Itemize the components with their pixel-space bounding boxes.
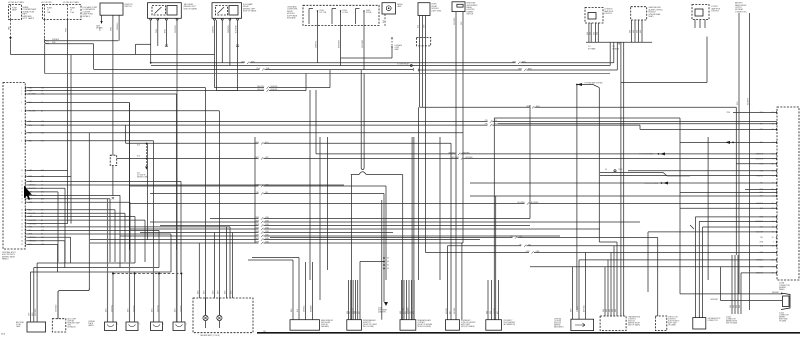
svg-text:YEL: YEL bbox=[410, 311, 412, 314]
svg-text:BLU: BLU bbox=[405, 311, 407, 314]
svg-text:24: 24 bbox=[21, 227, 23, 229]
svg-text:GRY: GRY bbox=[349, 311, 351, 314]
svg-text:LOCKING: LOCKING bbox=[554, 321, 562, 323]
svg-text:CONNECTOR): CONNECTOR) bbox=[735, 11, 747, 13]
svg-text:YEL: YEL bbox=[356, 311, 358, 314]
svg-text:12: 12 bbox=[772, 129, 774, 131]
svg-text:BRN: BRN bbox=[571, 309, 573, 312]
svg-text:S4: S4 bbox=[387, 261, 389, 263]
svg-text:22: 22 bbox=[21, 220, 23, 222]
svg-text:BLK: BLK bbox=[137, 145, 140, 147]
svg-text:BRN: BRN bbox=[736, 305, 738, 308]
svg-text:BRN: BRN bbox=[606, 309, 608, 312]
svg-text:G401: G401 bbox=[378, 308, 382, 310]
svg-text:(RIGHT OF ENGINE: (RIGHT OF ENGINE bbox=[418, 324, 433, 326]
svg-text:10: 10 bbox=[21, 170, 23, 172]
svg-text:GRY/BLK: GRY/BLK bbox=[304, 306, 306, 312]
svg-text:BRN: BRN bbox=[615, 309, 617, 312]
svg-text:GRY/YEL: GRY/YEL bbox=[180, 305, 182, 312]
svg-text:IN BOARD: IN BOARD bbox=[287, 17, 296, 20]
svg-text:BRN: BRN bbox=[589, 32, 591, 35]
svg-text:BRN: BRN bbox=[347, 311, 349, 314]
svg-text:CONTROL: CONTROL bbox=[628, 319, 636, 321]
svg-text:13: 13 bbox=[21, 185, 23, 187]
svg-text:20: 20 bbox=[21, 213, 23, 215]
svg-text:1: 1 bbox=[163, 324, 164, 326]
svg-text:BRN: BRN bbox=[637, 30, 639, 33]
svg-text:RT REAR: RT REAR bbox=[588, 47, 596, 50]
svg-text:15: 15 bbox=[21, 192, 23, 194]
svg-text:5AMP: 5AMP bbox=[12, 9, 18, 12]
svg-text:GRN/YEL: GRN/YEL bbox=[316, 41, 318, 48]
svg-text:BRN: BRN bbox=[733, 305, 735, 308]
svg-text:(BEHIND: (BEHIND bbox=[554, 324, 561, 326]
svg-text:25: 25 bbox=[21, 230, 23, 232]
svg-text:RIGHT SIDE: RIGHT SIDE bbox=[779, 318, 788, 320]
svg-text:BRN: BRN bbox=[291, 309, 293, 312]
svg-text:CONTROL: CONTROL bbox=[711, 11, 719, 13]
svg-text:BRN: BRN bbox=[730, 305, 732, 308]
svg-text:PPL: PPL bbox=[485, 120, 488, 122]
svg-text:BLU: BLU bbox=[449, 311, 451, 314]
svg-text:BRN/WHT: BRN/WHT bbox=[339, 40, 341, 48]
svg-text:BRN: BRN bbox=[597, 32, 599, 35]
svg-text:26: 26 bbox=[21, 234, 23, 236]
svg-text:BRN: BRN bbox=[213, 291, 215, 294]
svg-text:GRY/RED: GRY/RED bbox=[451, 157, 459, 159]
svg-text:GRN: GRN bbox=[354, 311, 356, 314]
svg-text:G24: G24 bbox=[137, 173, 140, 175]
svg-text:18: 18 bbox=[21, 202, 23, 204]
svg-text:ELECTRONICS: ELECTRONICS bbox=[668, 321, 679, 323]
svg-text:19: 19 bbox=[21, 209, 23, 211]
svg-text:GRN/RED: GRN/RED bbox=[228, 24, 230, 33]
svg-text:WHT/BLK: WHT/BLK bbox=[584, 305, 586, 312]
svg-text:ILLUM: ILLUM bbox=[16, 324, 21, 326]
svg-text:GRY/RED: GRY/RED bbox=[55, 304, 57, 312]
svg-text:PPL: PPL bbox=[485, 124, 488, 126]
svg-text:DOWNSHIFT: DOWNSHIFT bbox=[461, 320, 471, 322]
svg-text:(BEHIND RIGHT: (BEHIND RIGHT bbox=[726, 320, 737, 322]
svg-text:WHT: WHT bbox=[412, 311, 414, 314]
svg-text:(BEHIND: (BEHIND bbox=[779, 316, 786, 318]
svg-text:RED/YEL: RED/YEL bbox=[257, 89, 264, 91]
svg-text:HOT AT ALL TIMES: HOT AT ALL TIMES bbox=[63, 1, 80, 4]
svg-text:BLU/RED: BLU/RED bbox=[352, 308, 354, 314]
svg-text:CHECK CON: CHECK CON bbox=[668, 317, 678, 319]
svg-text:SIDE OF DASH): SIDE OF DASH) bbox=[243, 10, 257, 13]
svg-text:GRN: GRN bbox=[490, 311, 492, 314]
svg-text:BRN: BRN bbox=[197, 291, 199, 294]
svg-text:GRN/YEL: GRN/YEL bbox=[213, 26, 215, 33]
svg-text:SPOT LAMPS: SPOT LAMPS bbox=[23, 17, 35, 20]
svg-text:1: 1 bbox=[117, 324, 118, 326]
svg-text:(LEFT SIDE): (LEFT SIDE) bbox=[432, 10, 442, 12]
svg-text:YEL: YEL bbox=[256, 192, 259, 194]
svg-text:PPL/YEL: PPL/YEL bbox=[577, 306, 579, 312]
svg-text:SWITCH: SWITCH bbox=[467, 13, 474, 15]
svg-text:1: 1 bbox=[139, 324, 140, 326]
svg-text:GRY/RED: GRY/RED bbox=[454, 308, 456, 314]
svg-text:3: 3 bbox=[773, 159, 774, 161]
svg-text:S4: S4 bbox=[387, 265, 389, 267]
svg-text:BRN: BRN bbox=[400, 311, 402, 314]
svg-text:PANEL): PANEL) bbox=[2, 258, 9, 261]
svg-text:BLU/RED: BLU/RED bbox=[518, 202, 526, 204]
svg-text:BRN: BRN bbox=[594, 32, 596, 35]
svg-text:GRN/WHT: GRN/WHT bbox=[407, 307, 409, 314]
svg-text:(LEFT SIDE: (LEFT SIDE bbox=[668, 322, 677, 324]
svg-text:BRN: BRN bbox=[609, 309, 611, 312]
svg-text:LT REAR: LT REAR bbox=[612, 47, 620, 50]
svg-text:CODE ON CENTER: CODE ON CENTER bbox=[461, 322, 476, 324]
svg-text:GRY/RED: GRY/RED bbox=[35, 308, 37, 316]
svg-text:BLK: BLK bbox=[358, 311, 360, 314]
svg-text:FOG LTS SYSTEM: FOG LTS SYSTEM bbox=[639, 154, 653, 156]
svg-text:1: 1 bbox=[186, 324, 187, 326]
svg-text:CONNECTOR: CONNECTOR bbox=[708, 320, 719, 322]
svg-text:DETAILS: DETAILS bbox=[83, 15, 91, 18]
svg-text:138: 138 bbox=[263, 331, 266, 333]
svg-text:BRN: BRN bbox=[217, 291, 219, 294]
svg-text:BRN: BRN bbox=[603, 309, 605, 312]
svg-text:MODULE: MODULE bbox=[554, 323, 561, 325]
svg-text:11: 11 bbox=[21, 176, 23, 178]
svg-text:BRN: BRN bbox=[640, 30, 642, 33]
svg-text:LICENSE: LICENSE bbox=[88, 321, 95, 323]
svg-text:BLU/GRY: BLU/GRY bbox=[446, 308, 448, 314]
svg-text:23: 23 bbox=[21, 223, 23, 225]
svg-text:BRN: BRN bbox=[739, 305, 741, 308]
svg-text:BLK/WHT: BLK/WHT bbox=[236, 25, 238, 33]
svg-text:GRN/BLK: GRN/BLK bbox=[117, 22, 119, 30]
svg-text:FUSE: FUSE bbox=[343, 10, 347, 12]
svg-text:BRN: BRN bbox=[587, 32, 589, 35]
svg-text:S4: S4 bbox=[605, 169, 607, 171]
svg-text:COMP: COMP bbox=[395, 47, 400, 49]
svg-text:12: 12 bbox=[21, 181, 23, 183]
svg-text:GRY/WHT: GRY/WHT bbox=[362, 40, 364, 48]
svg-text:FUSE: FUSE bbox=[320, 10, 324, 12]
svg-text:S4: S4 bbox=[387, 258, 389, 260]
svg-text:1: 1 bbox=[773, 242, 774, 244]
svg-text:CONNECTOR: CONNECTOR bbox=[726, 318, 737, 320]
svg-text:GRN/RED: GRN/RED bbox=[448, 153, 457, 155]
svg-text:SEAT): SEAT) bbox=[649, 15, 654, 18]
svg-text:MONITOR: MONITOR bbox=[363, 322, 371, 324]
svg-text:DASH): DASH) bbox=[779, 288, 785, 291]
svg-text:BRN: BRN bbox=[633, 30, 635, 33]
svg-text:CONTROL: CONTROL bbox=[668, 319, 676, 321]
svg-text:BLU: BLU bbox=[497, 311, 499, 314]
svg-text:GRN/WHT: GRN/WHT bbox=[710, 299, 718, 301]
svg-text:GRY/YEL: GRY/YEL bbox=[111, 305, 113, 312]
svg-text:UNIT: UNIT bbox=[68, 325, 72, 327]
svg-text:PNK/BLK: PNK/BLK bbox=[52, 39, 60, 41]
svg-text:27: 27 bbox=[21, 237, 23, 239]
svg-text:RED/YEL: RED/YEL bbox=[257, 86, 264, 88]
svg-text:16: 16 bbox=[21, 195, 23, 197]
svg-text:17: 17 bbox=[21, 198, 23, 200]
svg-text:SWITCH: SWITCH bbox=[125, 6, 133, 8]
svg-text:YEL: YEL bbox=[510, 236, 513, 238]
svg-text:BRN: BRN bbox=[630, 30, 632, 33]
svg-text:BRN/WHT: BRN/WHT bbox=[311, 305, 313, 312]
svg-text:GRID (IN: GRID (IN bbox=[321, 324, 328, 326]
svg-text:RED/WHT: RED/WHT bbox=[748, 98, 750, 105]
svg-text:ENGINE COMP): ENGINE COMP) bbox=[137, 176, 149, 178]
svg-text:PROXIMITY: PROXIMITY bbox=[504, 320, 514, 322]
svg-text:BRN: BRN bbox=[230, 291, 232, 294]
svg-text:14: 14 bbox=[21, 188, 23, 190]
svg-text:GRY/RED: GRY/RED bbox=[454, 17, 456, 25]
svg-text:GRY/YEL: GRY/YEL bbox=[157, 305, 159, 312]
svg-text:DEFOGGER: DEFOGGER bbox=[321, 322, 331, 324]
svg-text:S4: S4 bbox=[387, 268, 389, 270]
svg-text:21: 21 bbox=[21, 216, 23, 218]
svg-text:GRY/RED: GRY/RED bbox=[756, 159, 764, 161]
svg-text:(LT SIDE OF: (LT SIDE OF bbox=[137, 174, 146, 176]
svg-text:CONTROL: CONTROL bbox=[604, 13, 612, 15]
svg-text:ING COLUMN): ING COLUMN) bbox=[363, 326, 374, 328]
svg-text:29: 29 bbox=[21, 244, 23, 246]
svg-text:GRY/RED: GRY/RED bbox=[402, 308, 404, 314]
svg-text:SIDE OF DASH): SIDE OF DASH) bbox=[184, 7, 198, 10]
svg-text:YEL: YEL bbox=[760, 237, 763, 239]
svg-text:HOT AT ALL TIMES: HOT AT ALL TIMES bbox=[8, 1, 25, 4]
svg-text:MODULE: MODULE bbox=[628, 321, 635, 323]
svg-text:FOG LTS SYSTEM: FOG LTS SYSTEM bbox=[644, 183, 658, 185]
svg-text:HOT IN RUN: HOT IN RUN bbox=[41, 2, 52, 4]
svg-text:28: 28 bbox=[21, 241, 23, 243]
svg-text:GRN/WHT: GRN/WHT bbox=[772, 292, 779, 294]
svg-text:YEL: YEL bbox=[519, 244, 522, 246]
svg-text:BRN: BRN bbox=[225, 291, 227, 294]
svg-text:BLK: BLK bbox=[297, 309, 299, 312]
svg-text:CONNECTOR: CONNECTOR bbox=[779, 314, 790, 316]
svg-text:BLK: BLK bbox=[137, 156, 140, 158]
svg-text:BRN: BRN bbox=[612, 309, 614, 312]
svg-text:(RIGHT OF STEER: (RIGHT OF STEER bbox=[363, 324, 378, 326]
svg-text:20: 20 bbox=[772, 237, 774, 239]
svg-text:GRY/YEL: GRY/YEL bbox=[133, 305, 135, 312]
svg-text:BRN: BRN bbox=[204, 291, 206, 294]
svg-text:85011: 85011 bbox=[1, 334, 5, 336]
svg-text:(BEHIND RIGHT: (BEHIND RIGHT bbox=[628, 322, 640, 324]
svg-text:GRY/RED: GRY/RED bbox=[175, 25, 177, 33]
svg-text:BRN: BRN bbox=[486, 311, 488, 314]
svg-text:FUSE: FUSE bbox=[366, 10, 370, 12]
